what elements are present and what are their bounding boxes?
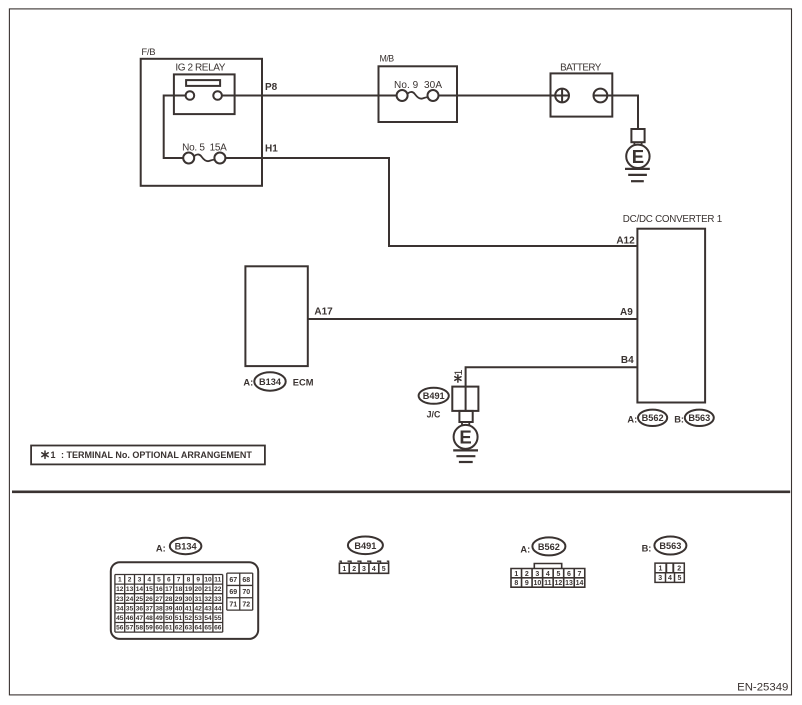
svg-text:2: 2: [352, 566, 356, 573]
wire H1: fuse No.5 to DC/DC converter pin A12: [225, 158, 637, 246]
svg-text:34: 34: [116, 605, 124, 612]
battery positive terminal: [555, 89, 569, 103]
svg-text:67: 67: [229, 577, 237, 584]
connector B563 pin numbers: [658, 566, 681, 583]
svg-text:40: 40: [175, 605, 183, 612]
svg-text:E: E: [632, 146, 644, 167]
svg-text:20: 20: [195, 586, 203, 593]
svg-text:7: 7: [177, 577, 181, 584]
svg-text:DC/DC CONVERTER 1: DC/DC CONVERTER 1: [623, 214, 722, 225]
svg-text:4: 4: [147, 577, 151, 584]
svg-text:B:: B:: [674, 415, 684, 425]
svg-text:59: 59: [146, 625, 154, 632]
svg-text:6: 6: [567, 571, 571, 578]
svg-text:4: 4: [668, 575, 672, 582]
svg-text:29: 29: [175, 596, 183, 603]
fuse No. 9 30A: [394, 80, 442, 101]
relay IG 2 RELAY: [174, 63, 235, 115]
svg-text:No. 9 30A: No. 9 30A: [394, 80, 442, 91]
svg-text:5: 5: [157, 577, 161, 584]
svg-text:14: 14: [576, 580, 584, 587]
svg-text:ECM: ECM: [293, 378, 314, 388]
svg-text:3: 3: [658, 575, 662, 582]
DC/DC converter 1 box: [623, 214, 722, 403]
connector B491 pin numbers: [342, 566, 385, 573]
svg-text:B562: B562: [538, 542, 560, 552]
svg-text:5: 5: [556, 571, 560, 578]
svg-text:F/B: F/B: [141, 47, 155, 58]
svg-text:57: 57: [126, 625, 134, 632]
svg-text:52: 52: [185, 615, 193, 622]
svg-text:70: 70: [242, 589, 250, 596]
svg-text:69: 69: [229, 589, 237, 596]
svg-text:37: 37: [146, 605, 154, 612]
fuse box M/B: [379, 54, 458, 122]
svg-text:B563: B563: [659, 541, 681, 551]
ground connector square (battery ground): [631, 129, 644, 142]
connector B134 pin grid 67-72: [227, 573, 253, 610]
svg-text:B491: B491: [423, 391, 445, 401]
svg-text:A:: A:: [627, 415, 637, 425]
svg-text:3: 3: [535, 571, 539, 578]
svg-text:B562: B562: [642, 413, 664, 423]
svg-text:8: 8: [187, 577, 191, 584]
svg-text:BATTERY: BATTERY: [560, 62, 602, 73]
connector view B562 key tab: [534, 564, 561, 569]
svg-text:2: 2: [525, 571, 529, 578]
junction connector J/C box: [452, 387, 478, 411]
svg-text:53: 53: [195, 615, 203, 622]
connector view B562 label: [520, 537, 565, 555]
wire B4 net: DC/DC B4 to junction connector: [466, 367, 638, 386]
svg-text:50: 50: [165, 615, 173, 622]
svg-text:21: 21: [204, 586, 212, 593]
svg-text:A:: A:: [156, 544, 166, 554]
svg-text:3: 3: [362, 566, 366, 573]
svg-text:36: 36: [136, 605, 144, 612]
svg-text:5: 5: [677, 575, 681, 582]
connector B134 pin numbers 67-72: [229, 577, 250, 609]
svg-text:M/B: M/B: [380, 54, 395, 64]
relay contact pin left: [186, 91, 195, 100]
svg-text:12: 12: [116, 586, 124, 593]
svg-text:No. 5 15A: No. 5 15A: [182, 143, 227, 154]
svg-text:4: 4: [546, 571, 550, 578]
connector label B491: [419, 388, 449, 404]
svg-text:B134: B134: [175, 541, 198, 551]
svg-text:39: 39: [165, 605, 173, 612]
relay contact pin right: [213, 91, 222, 100]
svg-text:5: 5: [382, 566, 386, 573]
svg-text:64: 64: [195, 625, 203, 632]
svg-text:11: 11: [214, 577, 221, 584]
svg-text:B563: B563: [688, 413, 710, 423]
svg-text:EN-25349: EN-25349: [737, 681, 788, 693]
svg-text:61: 61: [165, 625, 173, 632]
svg-text:30: 30: [185, 596, 193, 603]
svg-text:17: 17: [165, 586, 173, 593]
svg-text:44: 44: [214, 605, 222, 612]
svg-text:6: 6: [167, 577, 171, 584]
svg-text:12: 12: [555, 580, 563, 587]
svg-text:1: 1: [51, 450, 56, 460]
svg-text:P8: P8: [265, 82, 278, 93]
ground E symbol (J/C): [453, 422, 478, 462]
svg-text:23: 23: [116, 596, 124, 603]
ECM box: [245, 266, 307, 366]
svg-text:68: 68: [242, 577, 250, 584]
svg-text:43: 43: [204, 605, 212, 612]
svg-text:4: 4: [372, 566, 376, 573]
svg-text:E: E: [459, 427, 471, 448]
svg-text:B491: B491: [354, 541, 376, 551]
note box: *1 TERMINAL No. OPTIONAL ARRANGEMENT: [31, 446, 265, 465]
fuse box F/B: [141, 47, 262, 186]
svg-text:H1: H1: [265, 144, 278, 155]
svg-text:11: 11: [544, 580, 552, 587]
svg-text:IG 2 RELAY: IG 2 RELAY: [175, 63, 225, 74]
svg-text:J/C: J/C: [427, 409, 441, 419]
svg-text:B134: B134: [259, 377, 282, 387]
note marker *1 (rotated): [453, 369, 465, 382]
svg-text:15: 15: [146, 586, 154, 593]
wire from fuse No.9 to battery positive terminal: [438, 95, 555, 97]
svg-text:72: 72: [242, 601, 250, 608]
ground E symbol (battery): [625, 142, 650, 181]
svg-text:46: 46: [126, 615, 134, 622]
connector view B563 label: [642, 537, 687, 555]
svg-text:7: 7: [578, 571, 582, 578]
svg-text:60: 60: [155, 625, 163, 632]
svg-text:A:: A:: [243, 378, 253, 388]
svg-text:42: 42: [195, 605, 203, 612]
svg-text:55: 55: [214, 615, 222, 622]
svg-text:33: 33: [214, 596, 222, 603]
svg-text:38: 38: [155, 605, 163, 612]
svg-text:56: 56: [116, 625, 124, 632]
connector view B562 pin grid: [511, 569, 585, 588]
svg-text:8: 8: [514, 580, 518, 587]
svg-text:25: 25: [136, 596, 144, 603]
wire from battery negative to ground E: [607, 96, 638, 130]
connector view B491 pin row 1-5: [339, 561, 388, 573]
wire P8: relay right contact to M/B fuse: [222, 95, 397, 97]
svg-text:2: 2: [128, 577, 132, 584]
connector B134 pin numbers 1-66: [116, 577, 222, 632]
svg-text:13: 13: [565, 580, 573, 587]
svg-text:24: 24: [126, 596, 134, 603]
svg-text:B4: B4: [621, 355, 634, 366]
connector view B134 label: [156, 538, 202, 554]
svg-text:62: 62: [175, 625, 183, 632]
separator line between schematic and connector views: [12, 490, 790, 493]
svg-text:16: 16: [155, 586, 163, 593]
svg-text:65: 65: [204, 625, 212, 632]
svg-text:22: 22: [214, 586, 222, 593]
svg-text:31: 31: [195, 596, 203, 603]
svg-text:47: 47: [136, 615, 144, 622]
wire A9 net: ECM A17 to DC/DC A9: [308, 318, 638, 320]
svg-text:1: 1: [514, 571, 518, 578]
battery: [551, 62, 613, 116]
svg-text:1: 1: [658, 566, 662, 573]
battery negative terminal: [594, 89, 608, 103]
svg-text:54: 54: [204, 615, 212, 622]
svg-text:B:: B:: [642, 543, 652, 553]
svg-text:58: 58: [136, 625, 144, 632]
svg-text:71: 71: [229, 601, 237, 608]
ground connector square (J/C ground): [459, 411, 472, 422]
connector label A B134 ECM: [243, 372, 313, 390]
svg-text:27: 27: [155, 596, 163, 603]
svg-text:A17: A17: [314, 307, 333, 318]
svg-text:45: 45: [116, 615, 124, 622]
connector view B491 label: [348, 537, 383, 555]
svg-text:28: 28: [165, 596, 173, 603]
svg-text:A:: A:: [520, 544, 530, 554]
svg-text:9: 9: [525, 580, 529, 587]
wire from relay left contact down to fuse No.5: [164, 96, 186, 159]
svg-text:35: 35: [126, 605, 134, 612]
svg-text:1: 1: [342, 566, 346, 573]
svg-text:66: 66: [214, 625, 222, 632]
svg-text:48: 48: [146, 615, 154, 622]
connector labels under DC/DC converter: A B562, B B563: [627, 410, 713, 426]
fuse No. 5 15A: [182, 143, 227, 164]
svg-text:32: 32: [204, 596, 212, 603]
svg-text:10: 10: [533, 580, 541, 587]
svg-text:51: 51: [175, 615, 183, 622]
svg-text:26: 26: [146, 596, 154, 603]
svg-text:A9: A9: [620, 307, 633, 318]
svg-text:14: 14: [136, 586, 144, 593]
connector B562 pin numbers: [514, 571, 583, 587]
svg-text:9: 9: [196, 577, 200, 584]
svg-text:1: 1: [453, 369, 465, 375]
svg-text:49: 49: [155, 615, 163, 622]
svg-text:13: 13: [126, 586, 134, 593]
svg-text:: TERMINAL No. OPTIONAL ARRANG: : TERMINAL No. OPTIONAL ARRANGEMENT: [61, 450, 252, 460]
connector view B134 housing: [111, 562, 258, 639]
svg-text:2: 2: [677, 566, 681, 573]
svg-text:3: 3: [138, 577, 142, 584]
svg-text:A12: A12: [616, 235, 635, 246]
connector view B563 pin grid: [655, 563, 684, 582]
svg-text:41: 41: [185, 605, 193, 612]
svg-text:1: 1: [118, 577, 122, 584]
svg-text:18: 18: [175, 586, 183, 593]
svg-text:19: 19: [185, 586, 193, 593]
connector B134 pin grid 1-66: [115, 575, 223, 633]
svg-text:10: 10: [204, 577, 212, 584]
svg-text:63: 63: [185, 625, 193, 632]
